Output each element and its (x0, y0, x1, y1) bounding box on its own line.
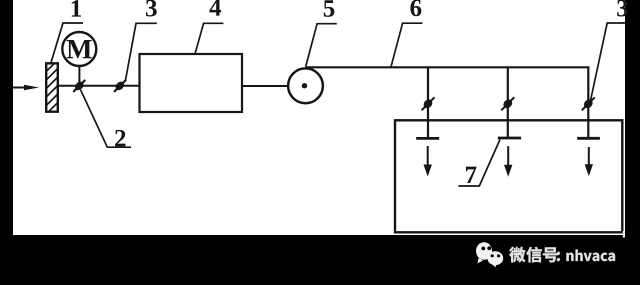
leader line label 3 right (590, 23, 626, 102)
diffuser outlet bar 3 (577, 137, 600, 140)
supply airflow arrow 1 (424, 146, 432, 177)
watermark text "微信号: nhvaca" (509, 247, 615, 263)
damper 3 on branch 2 (501, 97, 514, 110)
label 5 (324, 0, 335, 17)
leader line label 2 (81, 90, 132, 148)
wire: branch duct 1 (427, 67, 429, 138)
label 3 (146, 0, 157, 17)
white diagram panel (13, 0, 625, 235)
room right edge tick below panel (623, 231, 625, 238)
diffuser outlet bar 2 (498, 137, 521, 140)
wire: duct from louver to unit 4 (58, 85, 140, 87)
main supply duct 6 (306, 67, 589, 138)
leader line label 7 (458, 140, 500, 187)
label 2 (115, 130, 125, 147)
wire: branch duct 2 (507, 67, 509, 138)
label 3 right (617, 0, 628, 17)
fan 5 (288, 68, 323, 103)
air handling unit 4 (140, 54, 243, 112)
motor M (62, 32, 96, 66)
conditioned room (395, 120, 622, 232)
diffuser 7 outlet bar 1 (416, 137, 439, 140)
inlet air arrow (13, 85, 39, 91)
intake louver 1 (hatched) (46, 63, 58, 111)
damper 3 (first) (114, 80, 126, 92)
damper 3 on branch 3 (582, 97, 595, 110)
damper 3 on branch 1 (422, 97, 435, 110)
leader line label 1 (51, 23, 83, 63)
leader line label 3 (126, 23, 157, 80)
leader line label 4 (195, 23, 223, 54)
supply airflow arrow 2 (504, 146, 512, 177)
damper 2 (motorized) (73, 80, 85, 92)
label 7 (466, 167, 476, 183)
wire: duct from unit 4 to fan 5 (242, 85, 289, 87)
supply airflow arrow 3 (585, 147, 593, 176)
label 4 (209, 0, 221, 16)
label 1 (72, 0, 81, 17)
leader line label 6 (391, 23, 422, 67)
wechat icon (476, 242, 503, 267)
wire: motor stem to damper 2 (78, 66, 80, 86)
label 6 (410, 0, 421, 16)
leader line label 5 (306, 24, 337, 67)
